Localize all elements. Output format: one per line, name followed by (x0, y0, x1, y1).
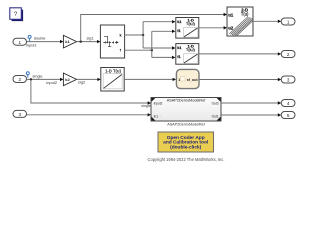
svg-text:k2: k2 (65, 77, 70, 82)
svg-text:In1: In1 (154, 114, 159, 118)
inport 3 (13, 110, 27, 117)
open coder app yellow block (158, 132, 214, 152)
outport 2 (281, 51, 295, 58)
wire k output with branches (125, 20, 176, 50)
hatched stripe icon (229, 17, 252, 36)
svg-text:5: 5 (287, 113, 290, 118)
wire 1-D table to chart (124, 78, 176, 81)
prelookup block (100, 25, 124, 58)
2-D lookup table block (227, 7, 253, 36)
svg-text:sf_out: sf_out (187, 78, 199, 82)
inport 1 (13, 38, 27, 45)
outport 4 (281, 100, 295, 107)
outport 3 (281, 76, 295, 83)
wire inport3 to model ref In1 (27, 113, 152, 116)
svg-text:Out3: Out3 (212, 101, 219, 105)
svg-text:T(k,f): T(k,f) (186, 48, 196, 52)
interpolation block 1 (176, 17, 199, 38)
svg-text:u2: u2 (228, 26, 234, 31)
prelookup icon (104, 36, 108, 42)
svg-text:single: single (141, 104, 150, 108)
1-D lookup table block (101, 68, 124, 92)
gain k2 (63, 73, 76, 86)
svg-text:k1: k1 (65, 39, 70, 44)
logging badge 2 (26, 72, 29, 78)
svg-text:~: ~ (160, 115, 162, 119)
svg-text:Input2: Input2 (154, 101, 163, 105)
svg-text:1-D T(u): 1-D T(u) (105, 68, 121, 73)
wire sig2 (77, 78, 101, 81)
svg-text:3: 3 (287, 78, 290, 83)
outport 1 (281, 18, 295, 25)
wire Out3 to outport 4 (221, 101, 281, 104)
svg-text:k: k (120, 33, 122, 37)
wire branch inport2 to model ref Input2 (31, 79, 151, 104)
logging badge 1 (28, 35, 31, 41)
svg-text:Out1: Out1 (212, 114, 219, 118)
svg-text:1: 1 (19, 40, 22, 45)
svg-text:double: double (34, 35, 46, 40)
outport 5 (281, 112, 295, 119)
wire interp2 to outport 2 (199, 52, 281, 55)
wire f output with branches (125, 30, 176, 59)
model reference block ASAP2DemoModelRef (151, 98, 221, 122)
svg-text:input1: input1 (26, 42, 37, 47)
svg-text:sig1: sig1 (87, 36, 94, 41)
svg-text:2: 2 (19, 77, 22, 82)
wire Out1 to outport 5 (221, 113, 281, 116)
svg-text:4: 4 (287, 101, 290, 106)
svg-text:T(k,f): T(k,f) (186, 22, 196, 26)
wire branch to u1 of 2-D table (81, 13, 227, 42)
svg-text:single: single (32, 74, 42, 79)
svg-text:ASAP2DemoModelRef: ASAP2DemoModelRef (167, 122, 205, 126)
svg-text:1: 1 (178, 78, 180, 82)
svg-text:ASAP2DemoModelRef: ASAP2DemoModelRef (167, 99, 207, 103)
wire inport2 to gain k2 (27, 78, 64, 81)
interpolation block 2 (176, 44, 199, 65)
wire interp1 to u2 (199, 26, 227, 29)
wire chart to outport 3 (199, 78, 281, 81)
svg-text:Copyright 1994-2022 The MathWo: Copyright 1994-2022 The MathWorks, Inc. (148, 157, 225, 162)
wire to outport 1 (253, 20, 281, 23)
svg-text:T(u): T(u) (241, 11, 249, 16)
svg-text:2: 2 (287, 52, 290, 57)
svg-text:u1: u1 (228, 12, 234, 17)
svg-text:3: 3 (19, 112, 22, 117)
stateflow chart sf_out (176, 69, 199, 88)
wire sig1 (77, 40, 101, 43)
inport 2 (13, 76, 27, 83)
svg-text:input2: input2 (46, 80, 57, 85)
svg-text:1: 1 (287, 20, 290, 25)
help block ? (10, 8, 23, 21)
wire inport1 to gain k1 (27, 40, 64, 43)
gain k1 (63, 35, 76, 48)
svg-text:(double-click): (double-click) (170, 145, 202, 151)
svg-text:sig2: sig2 (78, 79, 85, 84)
